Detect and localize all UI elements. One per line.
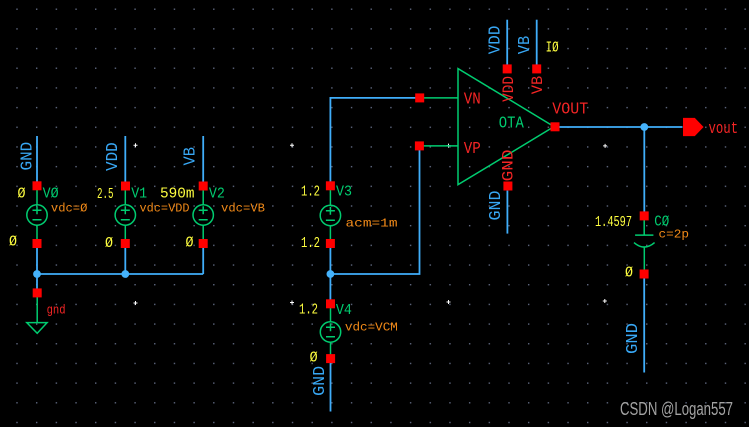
svg-text:Ø: Ø	[9, 235, 17, 251]
svg-text:VDD: VDD	[487, 26, 506, 55]
svg-text:GND: GND	[311, 366, 330, 396]
svg-text:1.2: 1.2	[301, 185, 320, 201]
svg-text:gnd: gnd	[47, 303, 66, 318]
svg-text:GND: GND	[18, 142, 37, 171]
svg-text:V4: V4	[336, 303, 352, 319]
svg-text:c=2p: c=2p	[659, 228, 690, 242]
svg-text:Ø: Ø	[18, 187, 26, 203]
svg-text:1.2: 1.2	[299, 303, 318, 319]
svg-text:vdc=VDD: vdc=VDD	[140, 202, 190, 216]
svg-text:V3: V3	[336, 185, 352, 201]
svg-text:VB: VB	[529, 76, 547, 95]
svg-text:Ø: Ø	[625, 266, 633, 282]
svg-text:VP: VP	[464, 140, 481, 159]
svg-text:CSDN @Logan557: CSDN @Logan557	[620, 399, 733, 419]
svg-text:V1: V1	[131, 187, 147, 203]
svg-text:OTA: OTA	[499, 114, 525, 133]
svg-text:1.4597: 1.4597	[595, 215, 632, 231]
svg-text:GND: GND	[624, 323, 643, 354]
svg-text:Ø: Ø	[105, 236, 113, 252]
svg-text:vdc=VCM: vdc=VCM	[345, 321, 398, 335]
svg-text:VDD: VDD	[104, 142, 123, 171]
svg-text:acm=1m: acm=1m	[346, 217, 398, 231]
svg-text:1.2: 1.2	[301, 236, 320, 252]
svg-text:VB: VB	[181, 147, 200, 166]
svg-text:VØ: VØ	[43, 187, 59, 203]
svg-text:GND: GND	[499, 149, 517, 181]
svg-text:VOUT: VOUT	[552, 101, 588, 120]
svg-text:VDD: VDD	[500, 76, 518, 102]
svg-text:IØ: IØ	[546, 40, 559, 57]
svg-text:GND: GND	[487, 191, 506, 221]
svg-text:VN: VN	[464, 91, 481, 110]
svg-text:vdc=VB: vdc=VB	[221, 202, 265, 216]
svg-text:590m: 590m	[160, 187, 195, 203]
svg-text:Ø: Ø	[186, 236, 194, 252]
svg-text:Ø: Ø	[310, 351, 318, 367]
svg-text:vout: vout	[709, 120, 739, 139]
svg-text:V2: V2	[209, 187, 225, 203]
svg-text:2.5: 2.5	[97, 187, 114, 203]
svg-text:VB: VB	[516, 36, 535, 55]
svg-text:vdc=Ø: vdc=Ø	[51, 202, 88, 216]
